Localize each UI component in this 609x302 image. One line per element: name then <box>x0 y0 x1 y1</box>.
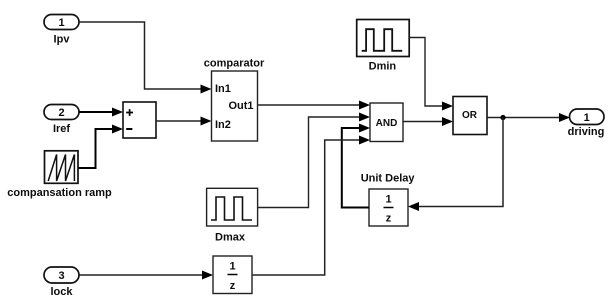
svg-text:lock: lock <box>50 286 73 298</box>
label Ipv <box>54 34 71 46</box>
wire Unit Delay to AND input 3 <box>342 124 370 208</box>
svg-text:Unit Delay: Unit Delay <box>361 173 416 185</box>
comparator block U1 <box>212 71 258 141</box>
wire sum to comparator In2 <box>156 117 212 126</box>
logic block AND <box>370 103 403 142</box>
label Iref <box>53 123 70 135</box>
svg-text:1: 1 <box>58 17 64 29</box>
wire Iref to sum plus input <box>79 108 123 117</box>
label comparator <box>204 58 265 70</box>
wire OR to output driving with junction <box>487 113 570 122</box>
svg-text:Ipv: Ipv <box>54 34 71 46</box>
label Dmax <box>215 232 246 244</box>
label compansation ramp <box>7 187 112 199</box>
output port 1 driving <box>570 109 605 125</box>
input port 1 Ipv <box>44 15 79 30</box>
svg-text:In1: In1 <box>215 83 231 95</box>
svg-text:Dmin: Dmin <box>369 61 397 73</box>
compensation ramp source block <box>45 151 79 184</box>
wire 1/z to AND input 4 <box>252 136 370 276</box>
wire Ipv to comparator In1 <box>79 22 212 94</box>
label lock <box>50 286 73 298</box>
label Unit Delay <box>361 173 416 185</box>
wire OR output feedback to Unit Delay <box>408 118 503 212</box>
svg-text:Iref: Iref <box>53 123 70 135</box>
input port 2 Iref <box>44 105 79 120</box>
wire Dmin to OR input 1 <box>409 38 453 111</box>
unit delay block 1/z lock path <box>213 256 252 294</box>
wire comparator Out1 to AND input 1 <box>258 101 371 110</box>
svg-text:3: 3 <box>58 270 64 282</box>
wire ramp to sum minus input <box>78 125 123 169</box>
label driving <box>568 126 605 138</box>
wire AND to OR input 2 <box>403 117 453 126</box>
pulse generator Dmax <box>207 188 258 226</box>
svg-text:1: 1 <box>584 112 590 124</box>
wire lock to unit delay 1/z <box>79 271 213 280</box>
svg-text:compansation ramp: compansation ramp <box>7 187 112 199</box>
pulse generator Dmin <box>357 20 410 57</box>
svg-text:1: 1 <box>385 194 391 206</box>
svg-text:OR: OR <box>462 110 478 121</box>
svg-text:AND: AND <box>376 118 398 129</box>
svg-text:driving: driving <box>568 126 605 138</box>
input port 3 lock <box>44 267 79 283</box>
svg-text:z: z <box>386 213 392 225</box>
logic block OR <box>453 97 487 135</box>
label Dmin <box>369 61 397 73</box>
svg-text:Dmax: Dmax <box>215 232 246 244</box>
svg-text:2: 2 <box>58 107 64 119</box>
svg-text:1: 1 <box>229 261 235 273</box>
wire Dmax to AND input 2 <box>258 113 370 208</box>
svg-text:Out1: Out1 <box>228 100 253 112</box>
svg-text:z: z <box>230 280 236 292</box>
unit delay block Unit Delay <box>369 189 408 226</box>
svg-text:comparator: comparator <box>204 58 265 70</box>
svg-text:In2: In2 <box>215 119 231 131</box>
sum block <box>123 102 156 138</box>
